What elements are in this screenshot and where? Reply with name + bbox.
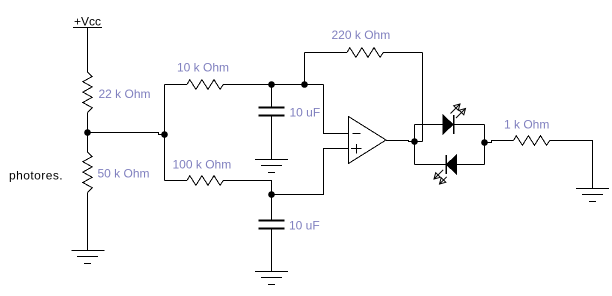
wire C2 to ground [271,230,273,272]
op-amp plus sign [351,148,362,150]
node D junction dot [301,81,308,88]
LED D1 emission arrow 1 [454,104,460,110]
op-amp minus sign [353,133,361,135]
LED D1 triangle [443,115,453,134]
ground G4 [576,188,609,190]
wire LED loop left vertical [414,125,416,165]
wire op-amp output to node E [386,141,415,142]
node F junction dot [268,191,275,198]
wire minus input [324,85,349,134]
svg-text:10 uF: 10 uF [290,106,321,120]
wire node A to node B [88,133,165,135]
op-amp U1 [349,117,387,164]
svg-text:22 k Ohm: 22 k Ohm [99,87,151,101]
node B junction dot [161,131,168,138]
wire feedback down to output node [422,53,424,142]
wire feedback up from node D [304,53,306,85]
LED D2 emission arrow 1 [434,173,440,179]
resistor R3 10 k Ohm [187,80,223,90]
wire feedback top rail left [305,52,348,54]
wire feedback top rail right [383,52,422,54]
wire node C down to C1 [271,85,273,107]
resistor R5 220 k Ohm [347,48,383,58]
wire Vcc to R1 [87,28,89,73]
svg-text:10 uF: 10 uF [289,219,320,233]
svg-text:10 k Ohm: 10 k Ohm [177,61,229,75]
node C junction dot [268,81,275,88]
wire LED loop bottom rail [415,164,485,166]
LED D2 cathode bar [445,155,447,174]
resistor R2 50 k Ohm (photoresistor) [83,152,92,192]
LED D1 emission arrow 2 [459,109,465,115]
wire node F down to C2 [271,195,273,220]
svg-text:50 k Ohm: 50 k Ohm [98,167,150,181]
wire node B down to R4 [165,180,188,182]
wire node B vertical [164,85,166,181]
wire LED loop top rail [415,124,485,126]
resistor R4 100 k Ohm [187,176,223,186]
resistor R6 1 k Ohm [514,136,550,146]
wire node B up to R3 rail [165,84,188,86]
wire R4 to node F [223,181,271,195]
wire C1 to ground [271,117,273,160]
ground G1 [72,250,105,252]
node A junction dot [84,129,91,136]
capacitor C2 10 uF [259,220,285,222]
wire plus input [272,149,349,195]
wire R2 to ground [87,192,89,250]
capacitor C1 10 uF [259,107,285,109]
svg-text:photores.: photores. [9,169,63,183]
svg-text:220 k Ohm: 220 k Ohm [332,28,391,42]
power +Vcc rail bar [73,27,102,29]
wire R3 to node C and node D [223,84,323,86]
svg-text:1 k Ohm: 1 k Ohm [504,118,549,132]
LED D2 emission arrow 2 [440,178,446,184]
wire LED loop right vertical [484,125,486,165]
wire R1 to node A [87,112,89,132]
LED D1 cathode bar [453,115,455,134]
LED D2 triangle [447,155,457,174]
wire R6 to ground corner [550,141,593,189]
ground G3 [255,271,288,273]
node G junction dot [481,139,488,146]
wire node G to R6 [485,141,514,143]
ground G2 [255,159,288,161]
resistor R1 22 k Ohm [83,72,92,112]
svg-text:100 k Ohm: 100 k Ohm [173,158,232,172]
node E output junction dot [411,138,418,145]
svg-text:+Vcc: +Vcc [74,15,101,29]
wire node A to R2 [87,133,89,153]
